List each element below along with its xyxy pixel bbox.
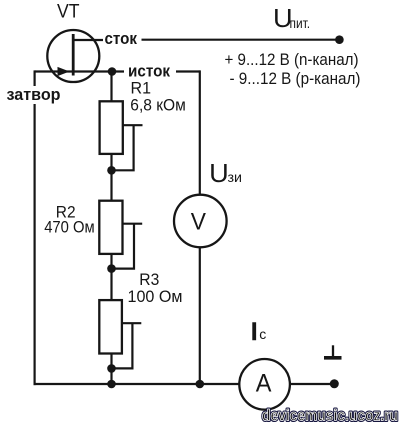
- node output terminal dot: [330, 379, 339, 388]
- svg-text:пит.: пит.: [290, 15, 311, 31]
- wire R2 to R3: [110, 254, 112, 300]
- svg-text:затвор: затвор: [7, 85, 61, 104]
- wire gate-source horizontal: [35, 70, 124, 72]
- svg-text:+ 9...12 В (n-канал): + 9...12 В (n-канал): [225, 50, 359, 69]
- wire bottom rail left: [34, 383, 240, 385]
- node Upit terminal dot: [335, 35, 344, 44]
- wire drain lead inside circle: [73, 39, 103, 41]
- wire voltmeter branch upper: [199, 70, 201, 195]
- svg-text:сток: сток: [105, 29, 138, 48]
- wire gate vertical lower: [33, 104, 35, 385]
- svg-text:U: U: [209, 158, 229, 188]
- node voltmeter bottom junction dot: [196, 380, 205, 389]
- wire source down to R1: [110, 72, 112, 102]
- svg-text:A: A: [256, 369, 272, 397]
- node R3 tap junction dot: [107, 364, 116, 373]
- wire voltmeter branch lower: [199, 247, 201, 384]
- svg-text:100 Ом: 100 Ом: [128, 288, 183, 306]
- svg-text:V: V: [191, 209, 206, 236]
- svg-text:с: с: [259, 326, 266, 342]
- resistor R3 wiper tap: [122, 322, 141, 324]
- svg-text:470 Ом: 470 Ом: [44, 219, 94, 237]
- transistor VT channel bar: [72, 34, 75, 76]
- svg-text:- 9...12 В (p-канал): - 9...12 В (p-канал): [230, 69, 361, 88]
- wire R3 to bottom rail: [110, 354, 112, 385]
- voltmeter V body: [174, 195, 227, 248]
- svg-text:R1: R1: [131, 80, 152, 98]
- wire ammeter to output terminal: [290, 383, 334, 385]
- watermark devicemusic.ucoz.ru: [262, 408, 398, 425]
- wire source to voltmeter branch corner: [176, 70, 200, 72]
- wire gate vertical upper: [33, 70, 35, 86]
- resistor R2 wiper tap: [123, 223, 143, 225]
- resistor R2 body: [99, 201, 122, 254]
- wire R1 to R2: [110, 154, 112, 201]
- node bottom rail junction dot at R3 chain: [107, 380, 116, 389]
- svg-text:VT: VT: [57, 1, 80, 22]
- svg-text:I: I: [251, 319, 258, 346]
- svg-text:6,8 кОм: 6,8 кОм: [130, 97, 186, 115]
- svg-text:исток: исток: [128, 62, 170, 81]
- resistor R1 body: [100, 101, 123, 154]
- node R1 tap junction dot: [107, 166, 116, 175]
- transistor VT gate arrowhead: [58, 67, 70, 76]
- wire drain to Upit terminal: [142, 39, 337, 41]
- ground symbol: [332, 345, 334, 356]
- svg-text:зи: зи: [228, 169, 243, 185]
- resistor R1 wiper tap: [123, 124, 143, 126]
- node R2 tap junction dot: [107, 264, 116, 273]
- svg-text:R3: R3: [139, 271, 159, 289]
- resistor R3 body: [99, 300, 122, 353]
- svg-text:devicemusic.ucoz.ru: devicemusic.ucoz.ru: [262, 408, 398, 425]
- node source junction dot: [108, 67, 117, 76]
- transistor VT (JFET) body circle: [47, 30, 99, 82]
- ammeter A body: [239, 359, 290, 410]
